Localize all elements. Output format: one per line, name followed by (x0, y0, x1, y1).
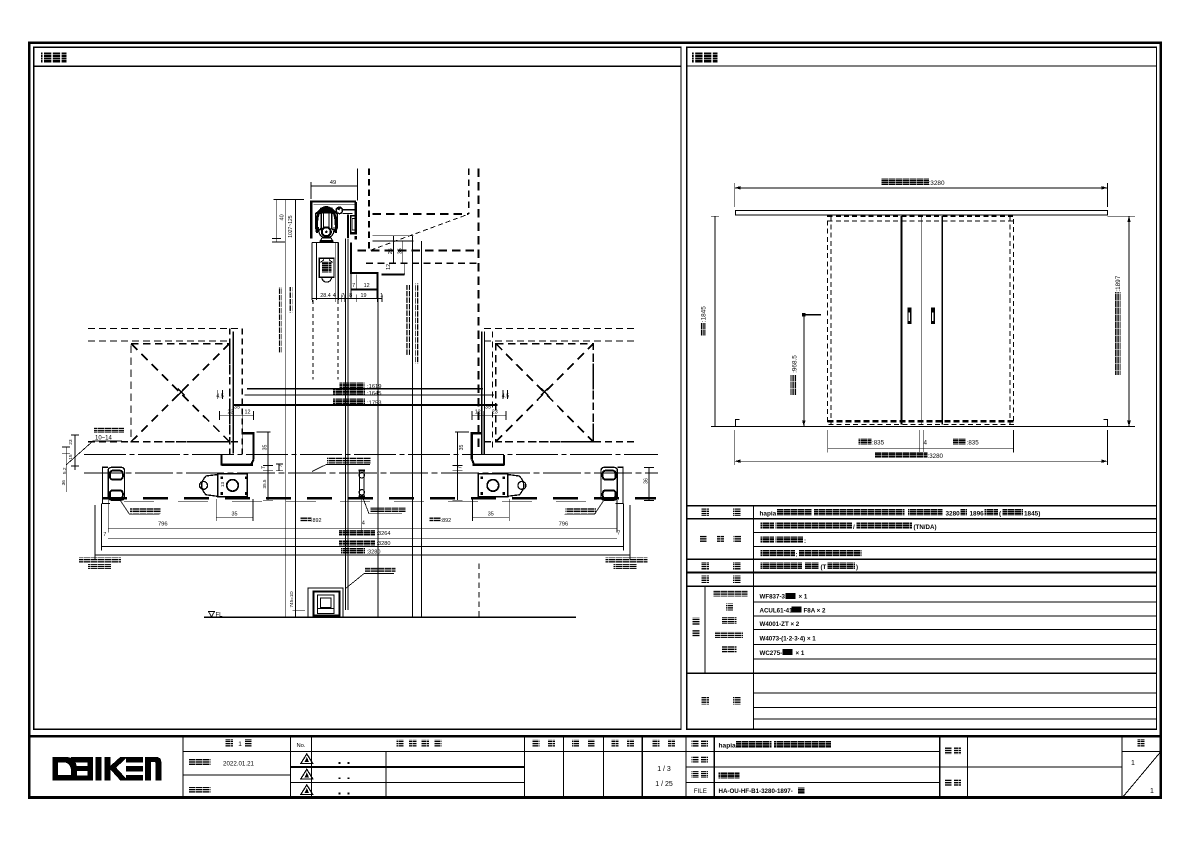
spec value panel finish (761, 523, 775, 530)
rail centre dash-dot line (84, 472, 658, 474)
svg-text:23: 23 (492, 410, 498, 416)
left wall stud X-box (131, 344, 230, 442)
dim text upper rail outer 3280 (881, 179, 929, 185)
svg-text:36: 36 (644, 478, 650, 484)
svg-text:7: 7 (341, 293, 344, 299)
svg-text:12: 12 (386, 264, 392, 270)
svg-text:(T: (T (821, 564, 827, 571)
title block row lines left (183, 774, 291, 776)
svg-text:15: 15 (68, 454, 74, 460)
title page header (1138, 739, 1145, 746)
svg-text::3280: :3280 (928, 453, 944, 460)
svg-text:35: 35 (488, 511, 494, 517)
svg-text::: : (796, 551, 798, 558)
vertical label FL to 1852 (406, 285, 410, 355)
stopper outer dim line (102, 545, 624, 547)
svg-text:hapia: hapia (719, 743, 737, 750)
svg-text:12: 12 (364, 283, 370, 289)
front handle height dim 968.5 (803, 315, 805, 427)
door slide dashed lines (312, 300, 314, 380)
front door width dim lines (828, 447, 1014, 449)
left panel header separator (34, 65, 681, 67)
front left height dim 1845 (714, 216, 716, 426)
left guide roller link (202, 475, 218, 497)
svg-text::3264: :3264 (377, 531, 391, 537)
left rail end cap (102, 467, 110, 503)
wall dashed vertical at door pocket (368, 169, 370, 251)
dim text shimo stopper inner 3264 (339, 530, 375, 536)
svg-text:796: 796 (158, 522, 168, 528)
svg-text:19: 19 (361, 293, 367, 299)
dim text 1645 (333, 389, 365, 395)
spec value sai-kobu (761, 536, 775, 543)
dim 35 under right roller (472, 516, 509, 518)
cavity diagonal leader (371, 215, 468, 251)
right wall dashed bottom line (484, 441, 636, 443)
svg-text:hapia: hapia (760, 511, 777, 518)
right rail height dim 36 (648, 468, 650, 501)
svg-text:1845): 1845) (1024, 511, 1040, 518)
spec table label biko (702, 697, 710, 705)
left wall dashed top lines (88, 327, 242, 329)
title zumei label (692, 771, 699, 778)
svg-text:35: 35 (232, 511, 238, 517)
svg-text::: : (804, 538, 806, 545)
label furedome black (370, 507, 406, 513)
title shukushaku header (653, 740, 660, 747)
title block right row lines (686, 766, 940, 768)
door bottom dimension row 28.4 4 7 8 19 1 (312, 297, 382, 299)
svg-text:12: 12 (245, 410, 251, 416)
svg-text::1645: :1645 (367, 391, 382, 397)
spec table label jomae (702, 576, 710, 584)
front doors bottom heavy dashed (828, 420, 1014, 422)
front floor line (712, 426, 1115, 428)
svg-text:35: 35 (263, 445, 269, 451)
frame vertical pair to floor guide (344, 239, 346, 611)
svg-text:35: 35 (459, 445, 465, 451)
svg-text:4: 4 (362, 520, 365, 526)
spec table outer top line (687, 505, 1157, 507)
front door handles (907, 307, 911, 324)
jamb pocket dims 7 and 12 (355, 274, 357, 289)
door panel top section (311, 243, 313, 300)
svg-text::892: :892 (311, 518, 322, 524)
vertical label FL to 1857 (415, 283, 419, 363)
wall stud vertical line above track (356, 169, 358, 201)
wall cavity dashed vertical right (468, 169, 470, 215)
floor line FL (204, 616, 576, 618)
title kakunin header (572, 740, 579, 747)
spec value rail finish (761, 550, 796, 557)
pivot circle and bracket arm (336, 207, 342, 213)
svg-text:(TN/DA): (TN/DA) (914, 524, 937, 531)
title busho label (945, 779, 952, 786)
front right dim FL to rail top 1897 (1128, 216, 1130, 426)
svg-text:WC275-: WC275- (760, 650, 783, 657)
floor door guide stopper box (308, 588, 343, 617)
dim text 1619 (339, 383, 364, 389)
label rail end cap left (79, 558, 121, 563)
upper rail track profile (310, 200, 356, 202)
right rail end cap (616, 467, 624, 503)
svg-text:1 / 3: 1 / 3 (657, 766, 671, 773)
label shimo stopper right (565, 508, 596, 514)
svg-text:W4073-(1·2·3·4) × 1: W4073-(1·2·3·4) × 1 (760, 636, 817, 643)
vertical dim line x421 (420, 241, 422, 617)
svg-text:2022.01.21: 2022.01.21 (223, 761, 255, 768)
front top rail bar (736, 210, 1108, 215)
FL level mark (209, 612, 215, 617)
spec table label hinban vertical (692, 618, 700, 626)
spec table hinban sub divider (704, 586, 706, 673)
title sakusei header (612, 740, 619, 747)
svg-text:4: 4 (924, 440, 928, 446)
svg-text:23: 23 (68, 439, 74, 445)
svg-text:12: 12 (475, 410, 481, 416)
title block header row line (183, 751, 686, 753)
left door jamb plan piece (243, 432, 255, 434)
title warning triangles (301, 754, 313, 764)
stopper inner dim line (108, 527, 617, 529)
title revision history header (397, 740, 404, 747)
dim ryogawa 892 left (300, 517, 311, 522)
svg-text:1: 1 (238, 741, 242, 748)
svg-text:49: 49 (330, 180, 336, 186)
right wall dashed top lines (484, 327, 636, 329)
front doors dashed outline (828, 216, 1014, 424)
wall lower dashed line (366, 262, 479, 264)
svg-text:7: 7 (261, 466, 267, 469)
dim text rail total 3280 (341, 548, 365, 554)
svg-text::892: :892 (441, 518, 452, 524)
dim ryogawa 892 right (430, 517, 441, 522)
svg-text:40: 40 (279, 214, 285, 220)
vertical label height 1845 (288, 287, 292, 313)
title block revision sub divider (385, 752, 387, 798)
door jamb casing profile (thick) (350, 243, 352, 274)
wall outer face heavy dashed vertical (477, 169, 479, 452)
svg-text:3280: 3280 (946, 511, 961, 518)
svg-text:HA-OU-HF-B1-3280-1897-: HA-OU-HF-B1-3280-1897- (719, 788, 793, 795)
title page diagonal (1122, 752, 1161, 798)
svg-text:7: 7 (278, 464, 284, 467)
upper track dimension 49 (311, 185, 358, 187)
front bottom stopper dim 3280 (735, 460, 1108, 462)
horizontal dim lines 1619 1645 1753 (247, 388, 483, 390)
left panel border (section view) (34, 47, 681, 729)
label kesho-waku opening (327, 458, 371, 464)
spec value handle (761, 563, 803, 570)
label shimo stopper left (130, 508, 161, 514)
svg-text:(: ( (999, 511, 1002, 518)
dim text shimo stopper outer 3280 (339, 540, 375, 546)
svg-text::3280: :3280 (929, 180, 945, 187)
dim text door width 835 left (859, 438, 872, 444)
svg-text:4: 4 (333, 293, 336, 299)
dim extension verticals lower (107, 500, 109, 532)
recessed pull handle detail (319, 258, 334, 277)
wall cavity dashed box top (372, 213, 468, 215)
small dim 7 left of rail (278, 464, 280, 471)
spec table horizontal lines (687, 518, 1157, 520)
spec table label column divider (753, 506, 755, 730)
svg-text:25: 25 (388, 248, 394, 254)
left wall dashed bottom line (88, 441, 242, 443)
svg-text:W4001-ZT × 2: W4001-ZT × 2 (760, 621, 800, 628)
svg-text:7: 7 (617, 531, 620, 537)
title seitei date (189, 759, 210, 766)
title block outer (29, 736, 1161, 798)
right panel title shomenzu (692, 52, 718, 63)
upper jamb step lines 25 35 (372, 235, 413, 237)
right jamb vertical dim 35 and 7 (456, 432, 458, 501)
svg-text:8: 8 (349, 293, 352, 299)
right guide roller link (508, 475, 524, 497)
right guide roller plate (478, 474, 508, 497)
left guide roller plate (218, 474, 248, 497)
svg-text:FL: FL (216, 612, 224, 618)
svg-text:FILE: FILE (694, 788, 707, 795)
title meisho label (692, 740, 699, 747)
svg-text:No.: No. (296, 743, 305, 749)
title shonin header (533, 740, 540, 747)
dim 35 under left roller (216, 516, 253, 518)
right panel header separator (687, 65, 1157, 67)
centre door guide pin (359, 471, 361, 497)
svg-text::1845: :1845 (701, 306, 708, 322)
left wall pocket verticals (229, 328, 231, 454)
svg-text:1896: 1896 (970, 511, 985, 518)
hanger roller carriage (317, 207, 336, 233)
spec table sub labels (713, 590, 748, 597)
front top rail dim 3280 (735, 187, 1108, 189)
title drawing name value (719, 772, 740, 779)
vertical dim line x411 (411, 236, 413, 618)
left dim extension lines (285, 199, 287, 617)
svg-text:1027~125: 1027~125 (288, 215, 294, 238)
title mitsumori label (692, 756, 699, 763)
svg-text:796: 796 (559, 522, 569, 528)
right panel border (front view) (687, 47, 1157, 729)
svg-text:23: 23 (228, 410, 234, 416)
svg-text:× 1: × 1 (796, 650, 805, 657)
svg-text::835: :835 (872, 439, 885, 446)
svg-text::1897: :1897 (1115, 275, 1122, 291)
label shimo stopper floor (365, 567, 396, 573)
right wall pocket verticals (481, 331, 483, 455)
vertical label FL to rail-set top 1897 (278, 287, 282, 353)
left small dim stack (65, 447, 67, 492)
title block verticals (182, 736, 184, 798)
floor rail heavy dashed line (102, 497, 656, 500)
front door stiles (900, 216, 902, 424)
dim text door width 835 right (953, 438, 966, 444)
svg-text:35: 35 (485, 404, 491, 410)
svg-text:1: 1 (380, 293, 383, 299)
spec table label shiage (700, 535, 707, 542)
svg-text:745=1D: 745=1D (289, 591, 294, 608)
rail total dim line (95, 554, 630, 556)
title first edition header (226, 739, 234, 747)
wall cavity dashed bottom line (358, 250, 479, 252)
svg-text:35: 35 (397, 248, 403, 254)
svg-text:7: 7 (352, 283, 355, 289)
svg-text::1753: :1753 (367, 400, 382, 406)
svg-text:35: 35 (234, 404, 240, 410)
svg-text:F8A × 2: F8A × 2 (804, 607, 827, 614)
wall dashed vertical to floor (478, 563, 480, 616)
svg-text:28.4: 28.4 (320, 293, 331, 299)
label rail end cap right (605, 558, 647, 563)
dim text 1753 (333, 399, 365, 405)
svg-text:/: / (853, 524, 855, 531)
svg-text:13: 13 (220, 482, 225, 488)
svg-text:WF837-3: WF837-3 (760, 594, 786, 601)
title kenmei label (945, 748, 952, 755)
casing vertical to floor (377, 298, 379, 617)
title kaitei date (189, 787, 210, 794)
svg-text:1: 1 (1150, 788, 1154, 795)
svg-text:1 / 25: 1 / 25 (655, 781, 673, 788)
svg-text:): ) (856, 564, 858, 571)
svg-text:× 1: × 1 (799, 594, 808, 601)
svg-text::835: :835 (967, 439, 980, 446)
svg-text:1: 1 (1131, 760, 1135, 767)
right door jamb plan piece (471, 432, 483, 434)
left panel title dammenzu (41, 52, 67, 63)
floor rail thin bottom line (124, 500, 600, 502)
svg-text:35.5: 35.5 (262, 479, 267, 488)
svg-text:5.2: 5.2 (62, 467, 68, 474)
left jamb vertical dim 35 and 7 (267, 432, 269, 501)
spec table label totte (702, 562, 710, 570)
svg-text::968.5: :968.5 (791, 355, 798, 373)
svg-text:7: 7 (103, 532, 106, 538)
right wall stud X-box (496, 344, 593, 442)
svg-text:7: 7 (457, 466, 463, 469)
front floor stopper marks (736, 420, 740, 427)
DAIKEN logo (53, 757, 162, 781)
svg-text::1619: :1619 (367, 384, 382, 390)
spec table label katashiki (702, 508, 710, 516)
svg-text:36: 36 (61, 480, 67, 486)
rail centre dash-dot line upper (84, 453, 658, 455)
left vertical dimension 40 (275, 199, 277, 242)
svg-text:ACUL61-41: ACUL61-41 (760, 607, 794, 614)
title revision dots (339, 762, 341, 764)
dim text shimo stopper outer 3280 front (874, 452, 927, 458)
note genba clearance 10-14 (94, 428, 124, 434)
